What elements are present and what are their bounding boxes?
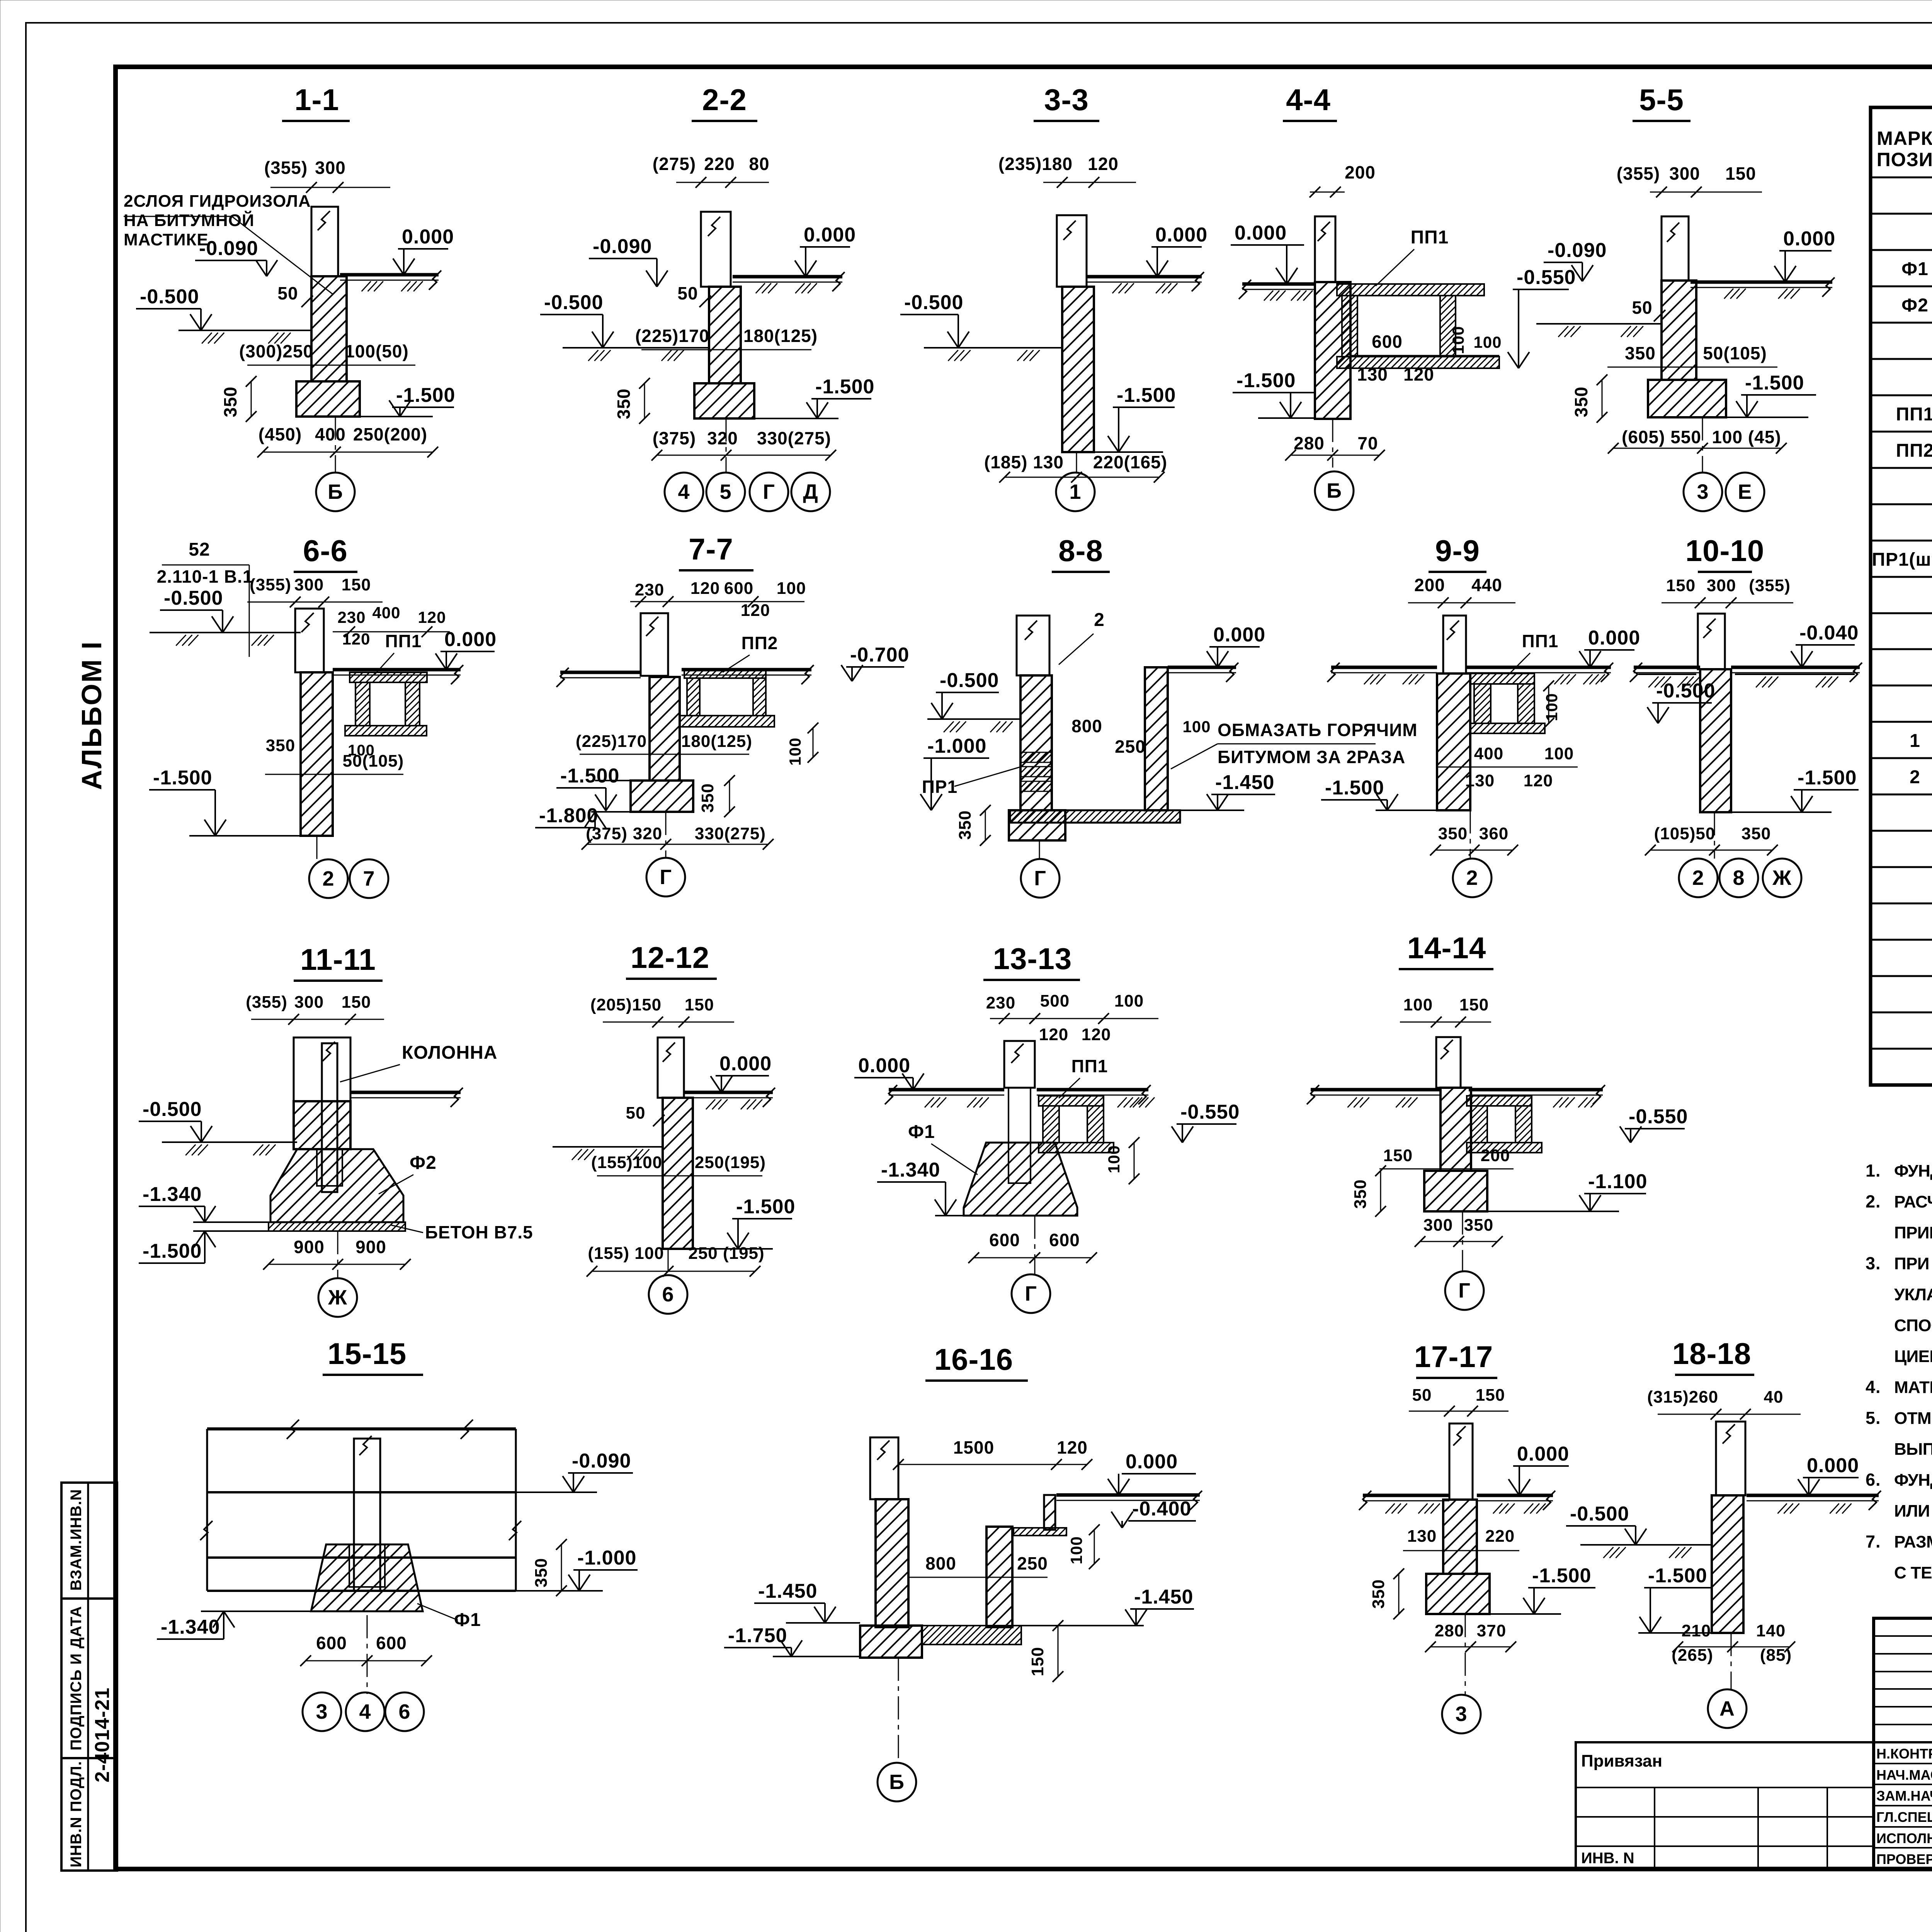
svg-text:350: 350 <box>614 388 634 419</box>
svg-text:1: 1 <box>1069 480 1081 503</box>
svg-text:100: 100 <box>1182 718 1211 736</box>
svg-text:-0.090: -0.090 <box>199 237 258 260</box>
svg-text:-1.500: -1.500 <box>1117 384 1176 406</box>
column 12-12 <box>658 1037 684 1098</box>
svg-text:350: 350 <box>1742 824 1771 843</box>
svg-text:(450): (450) <box>259 424 302 444</box>
svg-text:-1.340: -1.340 <box>881 1159 940 1181</box>
svg-text:(225)170: (225)170 <box>576 732 647 751</box>
floor left 17-17 <box>1363 1494 1449 1497</box>
svg-text:600: 600 <box>316 1633 347 1653</box>
svg-text:РАСЧЕТНОЕ СОПРОТИВЛЕНИЕ ГРУНТО: РАСЧЕТНОЕ СОПРОТИВЛЕНИЕ ГРУНТОВ ОСНОВАНИ… <box>1894 1192 1932 1211</box>
svg-text:5-5: 5-5 <box>1639 83 1684 117</box>
svg-text:800: 800 <box>925 1553 956 1573</box>
outer column 11-11 <box>294 1037 350 1101</box>
svg-text:120: 120 <box>741 601 770 620</box>
svg-text:(300)250: (300)250 <box>239 341 313 361</box>
svg-text:370: 370 <box>1477 1621 1506 1640</box>
axis + node 2 (9-9) <box>1470 810 1471 859</box>
svg-text:2: 2 <box>1466 866 1478 889</box>
axis + node Г (14-14) <box>1462 1211 1463 1271</box>
svg-text:320: 320 <box>633 824 662 843</box>
svg-text:360: 360 <box>1479 824 1509 843</box>
svg-text:ИЛИ УПЛОТНЕННУЮ ПЕСЧАНУЮ ПОДСЫ: ИЛИ УПЛОТНЕННУЮ ПЕСЧАНУЮ ПОДСЫПКУ ТОЛЩИН… <box>1894 1501 1932 1520</box>
svg-text:100: 100 <box>1449 326 1467 354</box>
svg-text:4.: 4. <box>1866 1377 1881 1397</box>
floor right 5-5 <box>1690 281 1832 284</box>
svg-text:200: 200 <box>1414 575 1445 595</box>
svg-text:(155)100: (155)100 <box>591 1153 662 1172</box>
svg-text:100: 100 <box>777 579 806 598</box>
svg-text:-1.100: -1.100 <box>1588 1170 1647 1193</box>
svg-text:50: 50 <box>277 283 298 303</box>
floor slab right 1-1 <box>340 273 439 277</box>
svg-text:150: 150 <box>1725 163 1756 184</box>
svg-text:Ф2: Ф2 <box>1901 295 1929 316</box>
svg-text:150: 150 <box>685 995 714 1014</box>
svg-text:4: 4 <box>678 480 690 503</box>
svg-text:7: 7 <box>363 867 375 890</box>
svg-text:50: 50 <box>626 1104 646 1122</box>
svg-text:50: 50 <box>1632 298 1652 318</box>
axis + node А (18-18) <box>1731 1633 1732 1689</box>
svg-text:280: 280 <box>1435 1621 1464 1640</box>
ground left 5-5 <box>1536 323 1662 325</box>
svg-text:1-1: 1-1 <box>294 83 339 117</box>
svg-text:Ф1: Ф1 <box>454 1610 481 1630</box>
svg-text:2: 2 <box>1094 610 1105 630</box>
floor right 6-6 <box>333 668 461 672</box>
svg-text:ФУНДАМЕНТЫ РАЗРАБОТАНЫ ДЛЯ СТР: ФУНДАМЕНТЫ РАЗРАБОТАНЫ ДЛЯ СТРОИТЕЛЬСТВА… <box>1894 1162 1932 1180</box>
column 7-7 <box>641 613 668 676</box>
svg-text:0.000: 0.000 <box>719 1053 772 1075</box>
svg-text:ПП2: ПП2 <box>1896 440 1932 461</box>
svg-text:Б: Б <box>1327 479 1342 502</box>
svg-text:ПП2: ПП2 <box>742 633 778 653</box>
svg-text:-1.500: -1.500 <box>1236 369 1296 392</box>
svg-text:300: 300 <box>1669 163 1700 184</box>
svg-text:100: 100 <box>1543 693 1561 721</box>
svg-text:150: 150 <box>1476 1386 1505 1405</box>
svg-text:5.: 5. <box>1866 1408 1881 1428</box>
svg-text:МАТЕРИАЛ ФУНДАМЕНТОВ-БУТОБЕТОН: МАТЕРИАЛ ФУНДАМЕНТОВ-БУТОБЕТОН ИЗ БУТА М… <box>1894 1378 1932 1397</box>
svg-text:150: 150 <box>1383 1146 1413 1165</box>
svg-text:-1.450: -1.450 <box>1134 1586 1193 1608</box>
svg-text:150: 150 <box>342 575 371 594</box>
svg-text:100: 100 <box>1067 1536 1085 1564</box>
svg-text:-0.550: -0.550 <box>1629 1105 1688 1128</box>
svg-text:6-6: 6-6 <box>303 534 348 568</box>
ground left 18-18 <box>1580 1544 1712 1546</box>
floor right 3-3 <box>1087 275 1202 279</box>
svg-text:Г: Г <box>1034 867 1046 890</box>
svg-text:2-4014-21: 2-4014-21 <box>91 1687 114 1782</box>
column 10-10 <box>1698 614 1725 669</box>
svg-text:ПП1: ПП1 <box>1411 227 1449 248</box>
svg-text:330(275): 330(275) <box>695 824 766 843</box>
svg-text:400: 400 <box>372 604 400 622</box>
svg-text:2.110-1 В.1: 2.110-1 В.1 <box>157 566 253 587</box>
axis + node Б (16-16) <box>898 1658 899 1763</box>
svg-text:-1.500: -1.500 <box>560 765 619 787</box>
svg-text:Ф1: Ф1 <box>908 1122 935 1142</box>
svg-text:3-3: 3-3 <box>1044 83 1089 117</box>
ground left 6-6 <box>150 632 301 633</box>
svg-text:(265): (265) <box>1672 1646 1713 1665</box>
svg-text:9-9: 9-9 <box>1435 534 1480 568</box>
svg-text:ВЫП.1 БЕЗ УСТАНОВКИ БОРТОВОГ: ВЫП.1 БЕЗ УСТАНОВКИ БОРТОВОГО КАМНЯ. <box>1894 1440 1932 1459</box>
long slab lines 15-15 <box>207 1427 516 1430</box>
axis + nodes З Е (5-5) <box>1702 417 1703 473</box>
svg-text:120: 120 <box>1403 364 1434 384</box>
svg-text:350: 350 <box>956 810 975 840</box>
svg-text:ПР1: ПР1 <box>922 777 957 797</box>
svg-text:15-15: 15-15 <box>328 1337 407 1371</box>
svg-text:-0.500: -0.500 <box>904 291 963 314</box>
column 1-1 <box>311 207 338 276</box>
svg-text:900: 900 <box>294 1237 325 1257</box>
svg-text:17-17: 17-17 <box>1414 1340 1493 1374</box>
svg-text:-0.040: -0.040 <box>1799 622 1859 644</box>
floor left 14-14 <box>1311 1088 1440 1092</box>
svg-text:7.: 7. <box>1866 1532 1881 1551</box>
ground ticks 10-10 <box>1638 673 1696 675</box>
svg-text:ПП1: ПП1 <box>1071 1056 1108 1076</box>
svg-text:МАРКА,: МАРКА, <box>1877 128 1932 149</box>
svg-text:1500: 1500 <box>953 1437 994 1458</box>
svg-text:ПОЗИЦ.: ПОЗИЦ. <box>1877 149 1932 170</box>
svg-text:-1.500: -1.500 <box>396 384 455 406</box>
svg-text:(105)50: (105)50 <box>1654 824 1716 843</box>
svg-text:7-7: 7-7 <box>689 532 733 566</box>
svg-text:А: А <box>1719 1697 1735 1720</box>
svg-text:Г: Г <box>660 866 672 889</box>
svg-text:АЛЬБОМ I: АЛЬБОМ I <box>77 641 107 790</box>
svg-text:150: 150 <box>342 993 371 1012</box>
svg-text:-1.500: -1.500 <box>1745 372 1804 394</box>
svg-text:ПОДПИСЬ И ДАТА: ПОДПИСЬ И ДАТА <box>68 1606 85 1750</box>
svg-text:800: 800 <box>1071 716 1102 736</box>
axis + node Б (4-4) <box>1332 419 1333 468</box>
svg-text:ПП1: ПП1 <box>1522 631 1559 651</box>
axis + node Г (13-13) <box>1034 1216 1036 1274</box>
svg-text:Д: Д <box>803 480 818 503</box>
svg-text:400: 400 <box>1474 744 1503 763</box>
svg-text:(85): (85) <box>1760 1646 1792 1665</box>
svg-text:Привязан: Привязан <box>1581 1752 1662 1770</box>
floor right 13-13 <box>1037 1088 1148 1092</box>
svg-text:-1.500: -1.500 <box>1798 767 1857 789</box>
svg-text:0.000: 0.000 <box>1155 224 1207 246</box>
svg-text:50: 50 <box>677 283 698 303</box>
svg-text:-1.340: -1.340 <box>143 1183 202 1206</box>
svg-text:ИНВ. N: ИНВ. N <box>1581 1850 1634 1867</box>
svg-text:-1.450: -1.450 <box>1215 771 1274 794</box>
svg-text:НА БИТУМНОЙ: НА БИТУМНОЙ <box>124 210 255 230</box>
svg-text:3: 3 <box>1455 1702 1467 1726</box>
svg-text:350: 350 <box>698 783 717 813</box>
svg-text:3.: 3. <box>1866 1253 1881 1273</box>
svg-text:0.000: 0.000 <box>444 628 497 651</box>
svg-text:0.000: 0.000 <box>402 226 454 248</box>
svg-text:100: 100 <box>1403 995 1433 1014</box>
svg-text:150: 150 <box>1666 576 1696 595</box>
floor right 18-18 <box>1747 1494 1879 1497</box>
svg-text:Ф1: Ф1 <box>1901 259 1929 279</box>
svg-text:(275): (275) <box>653 154 696 174</box>
column 8-8 <box>1017 616 1049 675</box>
svg-text:300: 300 <box>294 993 324 1012</box>
svg-text:НАЧ.МАСТ.: НАЧ.МАСТ. <box>1876 1767 1932 1783</box>
floor left 9-9 <box>1331 666 1437 669</box>
svg-text:УКЛАДКИ И ТВЕРДЕНИЯ БЕТОННОЙ С: УКЛАДКИ И ТВЕРДЕНИЯ БЕТОННОЙ СМЕСИ ПРИ П… <box>1894 1284 1932 1304</box>
svg-text:ЗАМ.НАЧ.М: ЗАМ.НАЧ.М <box>1876 1788 1932 1804</box>
svg-text:230: 230 <box>986 993 1015 1012</box>
ground left 11-11 <box>162 1141 297 1143</box>
svg-text:-1.450: -1.450 <box>758 1580 817 1602</box>
svg-text:0.000: 0.000 <box>804 224 856 246</box>
svg-text:350: 350 <box>1571 386 1591 417</box>
svg-text:600: 600 <box>724 579 753 598</box>
svg-text:ЦИЕЙ. УКЛАДКА БЕТОНА НА МЕРЗЛ: ЦИЕЙ. УКЛАДКА БЕТОНА НА МЕРЗЛЫЙ ГРУНТ НЕ… <box>1894 1346 1932 1366</box>
svg-text:2.: 2. <box>1866 1192 1881 1211</box>
svg-text:(605) 550: (605) 550 <box>1622 427 1701 447</box>
svg-text:6: 6 <box>662 1283 674 1306</box>
svg-text:12-12: 12-12 <box>631 940 710 975</box>
svg-text:0.000: 0.000 <box>1807 1454 1859 1477</box>
svg-text:0.000: 0.000 <box>1783 228 1835 250</box>
svg-text:МАСТИКЕ: МАСТИКЕ <box>124 230 209 249</box>
svg-text:50(105): 50(105) <box>1703 343 1767 363</box>
ground left 8-8 <box>927 718 1020 720</box>
svg-text:8: 8 <box>1733 866 1745 889</box>
svg-text:180(125): 180(125) <box>681 732 752 751</box>
svg-text:(375): (375) <box>586 824 628 843</box>
svg-text:ИСПОЛНИЛ: ИСПОЛНИЛ <box>1876 1830 1932 1846</box>
svg-text:ВЗАМ.ИНВ.N: ВЗАМ.ИНВ.N <box>68 1489 85 1590</box>
svg-text:220: 220 <box>704 154 735 174</box>
svg-text:120: 120 <box>1088 154 1119 174</box>
svg-text:250(200): 250(200) <box>353 424 427 444</box>
svg-text:-1.500: -1.500 <box>143 1240 202 1262</box>
svg-text:-0.500: -0.500 <box>940 669 999 692</box>
svg-text:-0.500: -0.500 <box>143 1098 202 1121</box>
svg-text:2: 2 <box>1692 866 1704 889</box>
floor right 9-9 <box>1466 666 1611 669</box>
svg-text:-1.500: -1.500 <box>1532 1565 1591 1587</box>
svg-text:1: 1 <box>1910 731 1920 751</box>
svg-text:(155) 100: (155) 100 <box>588 1244 664 1263</box>
axis + node Г (7-7) <box>665 812 667 859</box>
svg-text:0.000: 0.000 <box>1235 222 1287 244</box>
svg-text:ПП1: ПП1 <box>385 631 422 651</box>
svg-text:120: 120 <box>1082 1025 1111 1044</box>
svg-text:-0.090: -0.090 <box>1548 239 1607 262</box>
svg-text:-1.500: -1.500 <box>1648 1565 1707 1587</box>
column 6-6 <box>295 609 324 672</box>
svg-text:(355): (355) <box>264 158 308 178</box>
svg-text:600: 600 <box>1372 332 1403 352</box>
svg-text:150: 150 <box>1459 995 1489 1014</box>
svg-text:280: 280 <box>1294 433 1325 453</box>
ground left 3-3 <box>924 347 1062 349</box>
svg-text:-0.500: -0.500 <box>544 291 603 314</box>
floor right 10-10 <box>1731 666 1860 669</box>
svg-text:200: 200 <box>1345 162 1376 182</box>
svg-text:(205)150: (205)150 <box>590 995 662 1014</box>
svg-text:(355): (355) <box>250 575 291 594</box>
column 9-9 <box>1443 616 1466 673</box>
svg-text:ПРИ ВОЗВЕДЕНИИ МОНОЛИТНЫХ БУТО: ПРИ ВОЗВЕДЕНИИ МОНОЛИТНЫХ БУТОБЕТОННЫХ Ф… <box>1894 1254 1932 1273</box>
svg-text:СПОСОБ ИСКУССТВЕННОГО ПОДОГРЕВ: СПОСОБ ИСКУССТВЕННОГО ПОДОГРЕВА ОПРЕДЕЛЯ… <box>1894 1315 1932 1335</box>
svg-text:350: 350 <box>220 386 240 417</box>
column 17-17 <box>1449 1423 1473 1500</box>
svg-text:(235)180: (235)180 <box>998 154 1073 174</box>
column 18-18 <box>1716 1422 1745 1495</box>
floor right 7-7 <box>682 668 811 672</box>
svg-text:100: 100 <box>1544 744 1574 763</box>
svg-text:0.000: 0.000 <box>1517 1443 1569 1465</box>
svg-text:130: 130 <box>1357 364 1388 384</box>
axis + node 3 (17-17) <box>1465 1614 1466 1696</box>
svg-text:РАЗМЕРЫ В СКОБКАХ ДАНЫ ДЛЯ ВА: РАЗМЕРЫ В СКОБКАХ ДАНЫ ДЛЯ ВАРИАНТА ФУНД… <box>1894 1532 1932 1551</box>
svg-text:100 (45): 100 (45) <box>1712 427 1781 447</box>
axis + node 1 (3-3) <box>1076 452 1077 473</box>
floor left 7-7 <box>560 671 641 674</box>
svg-text:2: 2 <box>1910 767 1920 787</box>
svg-text:ПП1: ПП1 <box>1896 404 1932 425</box>
column 13-13 <box>1004 1041 1035 1088</box>
svg-text:13-13: 13-13 <box>993 942 1072 976</box>
svg-text:(355): (355) <box>246 993 287 1012</box>
svg-text:ФУНДАМЕНТЫ УКЛАДЫВАТЬ НА ВЫРА: ФУНДАМЕНТЫ УКЛАДЫВАТЬ НА ВЫРАВНЕННОЕ ПЕС… <box>1894 1471 1932 1490</box>
svg-text:Е: Е <box>1738 480 1752 503</box>
svg-text:Г: Г <box>1458 1279 1471 1302</box>
svg-text:-1.500: -1.500 <box>153 767 212 789</box>
floor right 14-14 <box>1469 1088 1603 1092</box>
svg-text:3: 3 <box>316 1700 328 1723</box>
svg-text:(355): (355) <box>1617 163 1660 184</box>
svg-text:100: 100 <box>786 737 804 765</box>
svg-text:600: 600 <box>989 1230 1020 1250</box>
svg-text:120: 120 <box>690 579 720 598</box>
svg-text:11-11: 11-11 <box>300 942 376 976</box>
svg-text:120: 120 <box>1057 1437 1088 1458</box>
svg-text:120: 120 <box>342 630 370 648</box>
svg-text:150: 150 <box>1028 1647 1047 1676</box>
svg-text:Ж: Ж <box>1772 866 1792 889</box>
svg-text:-1.500: -1.500 <box>736 1196 795 1218</box>
svg-text:230: 230 <box>337 608 366 626</box>
column 15-15 <box>354 1439 380 1591</box>
svg-text:(185) 130: (185) 130 <box>984 452 1064 472</box>
svg-text:-0.500: -0.500 <box>140 286 199 308</box>
svg-text:250: 250 <box>1017 1553 1048 1573</box>
svg-text:18-18: 18-18 <box>1672 1337 1752 1371</box>
svg-text:ПРОВЕРИЛ: ПРОВЕРИЛ <box>1876 1851 1932 1867</box>
ground left 2-2 <box>563 347 709 349</box>
svg-text:-1.750: -1.750 <box>728 1624 787 1647</box>
svg-text:350: 350 <box>1351 1179 1370 1209</box>
svg-text:ОТМОСТКУ ВОКРУГ ЗДАНИЯ ВЫПОЛНЯ: ОТМОСТКУ ВОКРУГ ЗДАНИЯ ВЫПОЛНЯТЬ ПО УЗЛУ… <box>1894 1409 1932 1428</box>
svg-text:100: 100 <box>348 742 375 759</box>
svg-text:300: 300 <box>1707 576 1736 595</box>
svg-text:350: 350 <box>266 736 295 755</box>
svg-text:-0.400: -0.400 <box>1132 1498 1191 1520</box>
column 2-2 <box>701 212 731 287</box>
svg-text:-0.500: -0.500 <box>164 587 223 609</box>
svg-text:Г: Г <box>1025 1282 1037 1305</box>
svg-text:6.: 6. <box>1866 1470 1881 1490</box>
svg-text:900: 900 <box>355 1237 386 1257</box>
pocket 15-15 <box>349 1544 385 1587</box>
svg-text:180(125): 180(125) <box>743 326 818 346</box>
floor right 12-12 <box>684 1091 773 1094</box>
floor right 2-2 <box>733 275 842 279</box>
svg-text:Н.КОНТР.: Н.КОНТР. <box>1876 1746 1932 1762</box>
axis + nodes 3 4 6 (15-15) <box>367 1615 368 1694</box>
svg-text:230: 230 <box>635 580 664 599</box>
axis + node Ж (11-11) <box>337 1231 338 1278</box>
column 16-16 <box>870 1437 898 1499</box>
column 5-5 <box>1662 216 1689 281</box>
svg-text:4-4: 4-4 <box>1286 83 1331 117</box>
svg-text:250: 250 <box>1115 736 1146 757</box>
svg-text:8-8: 8-8 <box>1058 534 1103 568</box>
svg-text:БЕТОН В7.5: БЕТОН В7.5 <box>425 1222 533 1242</box>
svg-text:100: 100 <box>1105 1145 1123 1173</box>
svg-text:-1.000: -1.000 <box>577 1547 636 1569</box>
svg-text:600: 600 <box>1049 1230 1080 1250</box>
svg-text:300: 300 <box>1423 1216 1453 1235</box>
svg-text:(375): (375) <box>653 428 696 448</box>
svg-text:250(195): 250(195) <box>695 1153 766 1172</box>
svg-text:ПРИНЯТО 0.2 мПА.: ПРИНЯТО 0.2 мПА. <box>1894 1223 1932 1242</box>
axis + nodes 2 7 (6-6) <box>316 836 318 860</box>
svg-text:-0.550: -0.550 <box>1180 1101 1240 1123</box>
svg-text:10-10: 10-10 <box>1685 534 1765 568</box>
svg-text:200: 200 <box>1481 1146 1510 1165</box>
svg-text:300: 300 <box>294 575 324 594</box>
svg-text:3: 3 <box>1697 480 1709 503</box>
svg-text:-0.090: -0.090 <box>572 1450 631 1472</box>
axis + node б (12-12) <box>668 1249 669 1275</box>
svg-text:-0.700: -0.700 <box>850 644 909 666</box>
svg-text:0.000: 0.000 <box>1213 624 1265 646</box>
svg-text:120: 120 <box>1039 1025 1068 1044</box>
svg-text:4: 4 <box>359 1700 371 1723</box>
svg-text:140: 140 <box>1756 1621 1786 1640</box>
floor right 8-8 <box>1168 666 1236 669</box>
svg-text:-0.090: -0.090 <box>593 235 652 258</box>
svg-text:16-16: 16-16 <box>934 1342 1014 1376</box>
svg-text:330(275): 330(275) <box>757 428 831 448</box>
svg-text:(315)260: (315)260 <box>1647 1388 1718 1406</box>
svg-text:350: 350 <box>1464 1216 1493 1235</box>
inner column 11-11 <box>322 1043 337 1192</box>
привязан box <box>1576 1742 1874 1869</box>
svg-text:ГЛ.СПЕЦ.К: ГЛ.СПЕЦ.К <box>1876 1809 1932 1825</box>
floor right 16-16 <box>1056 1493 1200 1497</box>
axis + node Б (1-1) <box>335 417 336 472</box>
svg-text:ПР1(шт2): ПР1(шт2) <box>1872 549 1932 570</box>
svg-text:120: 120 <box>418 608 446 626</box>
ground left 12-12 <box>553 1146 663 1148</box>
svg-text:-0.550: -0.550 <box>1517 266 1576 289</box>
svg-text:(225)170: (225)170 <box>635 326 709 346</box>
svg-text:50: 50 <box>1412 1386 1432 1405</box>
axis + nodes 2 8 Ж (10-10) <box>1714 812 1715 859</box>
